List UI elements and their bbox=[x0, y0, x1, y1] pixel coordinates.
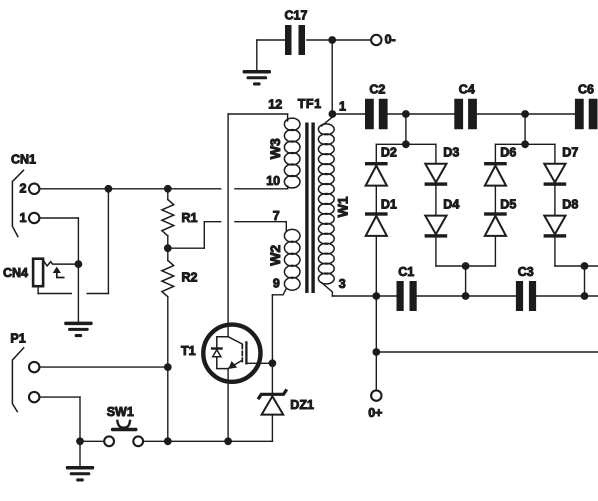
wire pin12 bbox=[228, 113, 288, 115]
diode D6 bbox=[484, 162, 507, 186]
winding W2 bbox=[284, 229, 300, 290]
T1 collector bar bbox=[217, 337, 228, 369]
junction TF1 pin1 bbox=[329, 110, 337, 118]
terminal 0+ bbox=[371, 390, 381, 400]
wire C17 ground stem bbox=[256, 40, 258, 70]
svg-text:D6: D6 bbox=[500, 146, 516, 160]
svg-text:C1: C1 bbox=[398, 265, 414, 279]
wire D6 top lead bbox=[494, 144, 496, 162]
svg-text:R1: R1 bbox=[182, 211, 198, 225]
svg-text:TF1: TF1 bbox=[298, 97, 322, 111]
junction P1/ground/SW1 bbox=[76, 437, 84, 445]
wire to SW1 left bbox=[80, 440, 104, 442]
wire mid drop D bbox=[465, 266, 467, 296]
pin 3 label bbox=[339, 277, 346, 291]
capacitor C6 bbox=[575, 99, 598, 130]
winding W1 bottom lead bbox=[322, 283, 333, 297]
wire C4 to C6 bbox=[477, 113, 575, 115]
svg-text:CN1: CN1 bbox=[11, 153, 36, 167]
label W3 bbox=[267, 138, 283, 159]
junction gate node bbox=[269, 359, 277, 367]
terminal 0- bbox=[371, 35, 381, 45]
resistor R2 bbox=[162, 260, 174, 296]
switch SW1 actuator bbox=[117, 421, 130, 428]
diode D7 bbox=[544, 164, 567, 186]
capacitor C17 bbox=[285, 25, 305, 55]
label D1 bbox=[381, 198, 397, 212]
capacitor C4 bbox=[454, 99, 477, 130]
wire D5 down bbox=[494, 236, 496, 266]
pin 1 label bbox=[339, 99, 346, 113]
junction T1 emitter bbox=[224, 437, 232, 445]
wire CN1 pin1 down bbox=[77, 218, 79, 264]
connector CN4 body bbox=[33, 259, 43, 287]
wire emitter down bbox=[227, 369, 229, 442]
svg-text:0-: 0- bbox=[385, 32, 396, 46]
ground bbox=[66, 466, 94, 482]
wire pin3 to C1 bbox=[332, 295, 396, 297]
transformer core bbox=[305, 123, 315, 294]
T1 gate lead bbox=[246, 362, 272, 364]
T1 collector diagonal bbox=[228, 337, 242, 344]
wire gate node to DZ1 bbox=[271, 363, 273, 392]
capacitor C3 bbox=[516, 281, 536, 311]
wire P1 bottom down bbox=[79, 397, 81, 441]
junction at 0- branch bbox=[328, 36, 336, 44]
svg-text:C4: C4 bbox=[459, 82, 475, 96]
label W1 bbox=[335, 196, 351, 217]
junction CN4 tip / CN1 pin1 / ground bbox=[75, 260, 83, 268]
wire D2-D1 bbox=[375, 186, 377, 213]
svg-text:D3: D3 bbox=[443, 146, 459, 160]
svg-text:W2: W2 bbox=[267, 245, 283, 266]
wire DZ1 down bbox=[271, 415, 273, 442]
CN4 tip contact bbox=[43, 260, 74, 266]
ground bbox=[243, 70, 271, 86]
junction mid D bbox=[462, 262, 470, 270]
svg-text:R2: R2 bbox=[182, 271, 198, 285]
pin 7 label bbox=[273, 209, 280, 223]
diode D2 bbox=[365, 162, 388, 186]
svg-text:P1: P1 bbox=[10, 331, 25, 345]
zener DZ1 triangle bbox=[262, 396, 284, 414]
diode D4 bbox=[425, 216, 448, 238]
svg-text:D1: D1 bbox=[381, 198, 397, 212]
wire jog to TF1 pin 7 bbox=[168, 222, 221, 249]
wire D6-D5 bbox=[494, 186, 496, 213]
svg-text:SW1: SW1 bbox=[107, 405, 134, 419]
label C4 bbox=[459, 82, 475, 96]
svg-text:C3: C3 bbox=[518, 265, 534, 279]
terminal CN1 pin 2 bbox=[29, 184, 39, 194]
svg-text:D5: D5 bbox=[500, 198, 516, 212]
junction mid H bbox=[581, 262, 589, 270]
wire P1 top right bbox=[39, 366, 167, 368]
capacitor C1 bbox=[397, 281, 417, 311]
terminal SW1 right bbox=[133, 436, 143, 446]
wire D7-D8 bbox=[554, 186, 556, 216]
CN4 sleeve down bbox=[37, 286, 39, 293]
terminal P1 top bbox=[29, 362, 39, 372]
wire D3-D4 bbox=[435, 186, 437, 216]
label SW1 bbox=[107, 405, 134, 419]
label R1 bbox=[182, 211, 198, 225]
junction branch F bbox=[521, 140, 529, 148]
diode D5 bbox=[484, 212, 507, 236]
wire ground stem CN4 bbox=[77, 264, 79, 322]
svg-text:D8: D8 bbox=[562, 198, 578, 212]
label C17 bbox=[285, 8, 308, 22]
label CN1 bbox=[11, 153, 36, 167]
wire D2 top lead bbox=[375, 144, 377, 162]
label C2 bbox=[369, 82, 385, 96]
resistor R1 bbox=[162, 200, 174, 236]
wire node F down bbox=[524, 114, 526, 144]
svg-text:D7: D7 bbox=[562, 146, 578, 160]
pin 12 label bbox=[268, 98, 282, 112]
wire C3 to edge bbox=[536, 295, 598, 297]
wire R1 bottom stub bbox=[167, 236, 169, 248]
winding W3 top stub bbox=[287, 114, 289, 121]
wire pin7 (right part) bbox=[235, 221, 286, 223]
label 0+ bbox=[368, 406, 382, 420]
connector P1 bracket bbox=[12, 348, 23, 412]
svg-text:0+: 0+ bbox=[368, 406, 382, 420]
CN4 switch arrow bbox=[53, 267, 64, 278]
T1 channel dashed bbox=[241, 345, 243, 362]
svg-text:W3: W3 bbox=[267, 138, 283, 159]
label T1 bbox=[181, 344, 196, 358]
junction P1 top wire bbox=[164, 363, 172, 371]
junction bottom H bbox=[581, 292, 589, 300]
wire ground stem SW1 bbox=[79, 441, 81, 466]
pin 10 label bbox=[266, 174, 280, 188]
junction top node B bbox=[402, 110, 410, 118]
label CN4 bbox=[3, 266, 28, 280]
junction top node F bbox=[521, 110, 529, 118]
wire pin1 to C2 bbox=[332, 113, 365, 115]
pin 1 label bbox=[20, 211, 27, 225]
wire mid drop H bbox=[584, 266, 586, 296]
junction bottom D bbox=[462, 292, 470, 300]
label R2 bbox=[182, 271, 198, 285]
label TF1 bbox=[298, 97, 322, 111]
junction bottom A bbox=[372, 292, 380, 300]
svg-text:DZ1: DZ1 bbox=[290, 398, 314, 412]
label C6 bbox=[578, 82, 594, 96]
label 0- bbox=[385, 32, 396, 46]
svg-text:12: 12 bbox=[268, 98, 282, 112]
wire node B down bbox=[405, 114, 407, 144]
wire mid D8 to edge bbox=[555, 265, 598, 267]
svg-text:D2: D2 bbox=[381, 146, 397, 160]
label P1 bbox=[10, 331, 25, 345]
wire D7 top lead bbox=[554, 144, 556, 164]
wire branch D2-D3 bbox=[376, 143, 436, 145]
terminal CN1 pin 1 bbox=[29, 213, 39, 223]
wire collector from pin12 bbox=[227, 114, 229, 337]
wire 0- node to TF1 pin 1 bbox=[331, 40, 333, 114]
wire P1 bottom right bbox=[39, 396, 80, 398]
wire node A down bbox=[375, 296, 377, 390]
label D2 bbox=[381, 146, 397, 160]
junction SW1 out bbox=[164, 437, 172, 445]
transistor T1 circle bbox=[203, 325, 260, 382]
wire C17 left bbox=[257, 39, 285, 41]
label D6 bbox=[500, 146, 516, 160]
connector CN1 bracket bbox=[12, 170, 23, 236]
wire R2 top stub bbox=[167, 248, 169, 260]
CN4 sleeve right (hops ground wire) bbox=[38, 293, 108, 295]
svg-text:CN4: CN4 bbox=[3, 266, 28, 280]
junction branch B bbox=[402, 140, 410, 148]
wire D4 down bbox=[435, 238, 437, 266]
terminal P1 bottom bbox=[29, 392, 39, 402]
winding W1 bbox=[318, 124, 334, 284]
svg-text:2: 2 bbox=[20, 181, 27, 195]
T1 emitter arrow bbox=[228, 361, 237, 369]
terminal SW1 left bbox=[104, 436, 114, 446]
wire TF1 pin9 down to gate node bbox=[271, 295, 273, 364]
svg-text:3: 3 bbox=[339, 277, 346, 291]
svg-text:7: 7 bbox=[273, 209, 280, 223]
label C1 bbox=[398, 265, 414, 279]
label D3 bbox=[443, 146, 459, 160]
wire D8 down bbox=[554, 238, 556, 266]
junction R1 top bbox=[164, 185, 172, 193]
pin 2 label bbox=[20, 181, 27, 195]
wire C2 to C4 bbox=[388, 113, 455, 115]
diode D1 bbox=[365, 212, 388, 236]
wire rail to edge bbox=[376, 351, 598, 353]
winding W3 bottom stub bbox=[287, 186, 289, 189]
label D5 bbox=[500, 198, 516, 212]
T1 emitter diagonal bbox=[228, 360, 242, 368]
wire CN1 pin1 right bbox=[39, 217, 78, 219]
label DZ1 bbox=[290, 398, 314, 412]
wire down to SW1 out bbox=[167, 367, 169, 441]
wire R1 top stub bbox=[167, 189, 169, 200]
svg-text:9: 9 bbox=[273, 276, 280, 290]
svg-text:1: 1 bbox=[20, 211, 27, 225]
pin 9 label bbox=[273, 276, 280, 290]
zener DZ1 cathode bar bbox=[259, 391, 286, 398]
svg-text:D4: D4 bbox=[443, 198, 459, 212]
svg-text:W1: W1 bbox=[335, 196, 351, 217]
label W2 bbox=[267, 245, 283, 266]
winding W1 top lead bbox=[322, 114, 333, 126]
wire C17 to node 0- bbox=[307, 39, 371, 41]
winding W2 bottom stub bbox=[272, 289, 286, 295]
wire pin10 (right part) bbox=[235, 188, 288, 190]
svg-text:C6: C6 bbox=[578, 82, 594, 96]
wire CN1 pin2 to TF1 pin10 (left part) bbox=[39, 188, 220, 190]
label D8 bbox=[562, 198, 578, 212]
label C3 bbox=[518, 265, 534, 279]
junction R1/R2 bbox=[164, 244, 172, 252]
diode D8 bbox=[544, 216, 567, 238]
svg-text:1: 1 bbox=[339, 99, 346, 113]
label D4 bbox=[443, 198, 459, 212]
svg-text:10: 10 bbox=[266, 174, 280, 188]
ground bbox=[64, 322, 92, 338]
T1 gate bar bbox=[245, 342, 247, 363]
wire D1 to bottom bbox=[375, 236, 377, 296]
label D7 bbox=[562, 146, 578, 160]
svg-text:T1: T1 bbox=[181, 344, 196, 358]
wire SW1 out bbox=[143, 440, 272, 442]
svg-text:C17: C17 bbox=[285, 8, 308, 22]
junction rail bbox=[372, 348, 380, 356]
capacitor C2 bbox=[365, 99, 388, 130]
wire R2 to P1 node bbox=[167, 297, 169, 367]
CN4 sleeve riser to pin2 wire bbox=[107, 189, 109, 294]
winding W2 top stub bbox=[285, 222, 287, 231]
diode D3 bbox=[425, 164, 448, 186]
T1 body diode bbox=[211, 347, 223, 357]
wire C1 to C3 bbox=[417, 295, 516, 297]
junction CN4 sleeve riser bbox=[105, 185, 113, 193]
switch SW1 bar bbox=[111, 428, 138, 432]
winding W3 bbox=[284, 118, 300, 188]
svg-text:C2: C2 bbox=[369, 82, 385, 96]
wire mid D4-D5 bbox=[436, 265, 496, 267]
wire D3 top lead bbox=[435, 144, 437, 164]
wire branch D6-D7 bbox=[495, 143, 555, 145]
